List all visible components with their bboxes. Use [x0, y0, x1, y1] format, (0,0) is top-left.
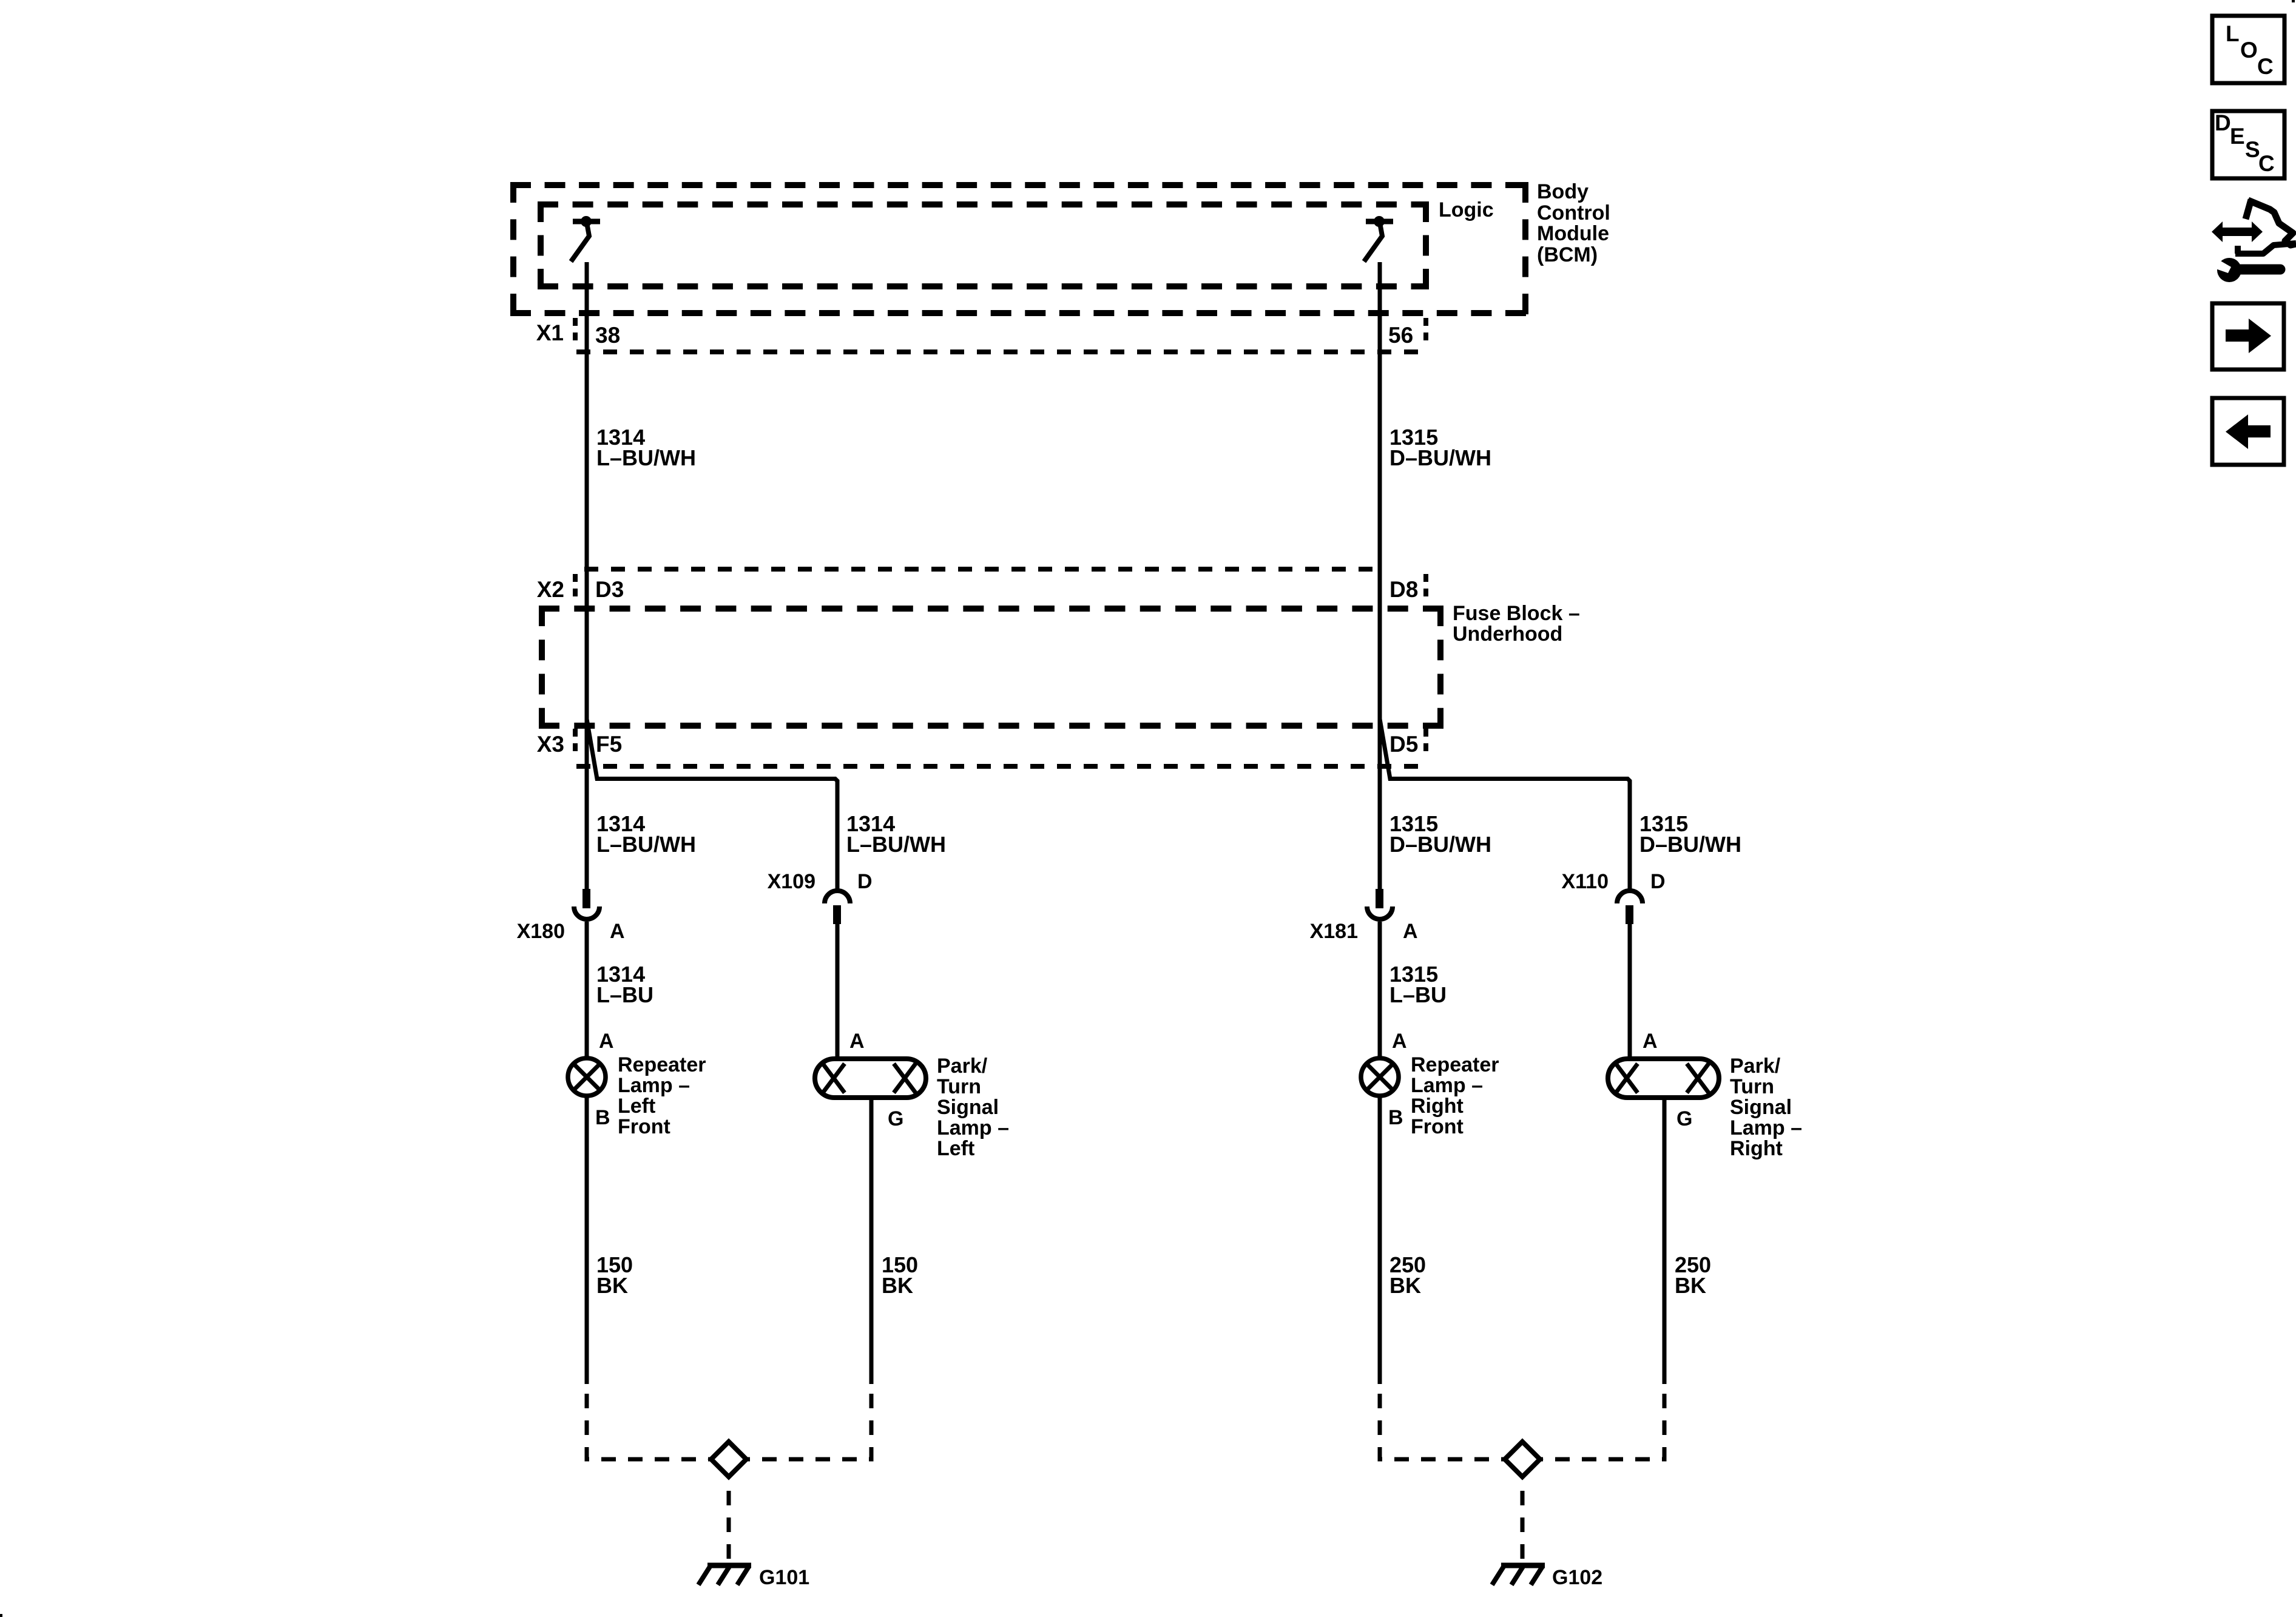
wire label 1314 L-BU/WH (left main, below fuse)	[596, 811, 696, 857]
sidebar icon arrow right box	[2212, 303, 2284, 370]
label Body Control Module (BCM)	[1537, 180, 1610, 266]
svg-text:B: B	[595, 1106, 610, 1129]
svg-text:B: B	[1388, 1106, 1403, 1129]
svg-text:56: 56	[1388, 323, 1413, 348]
svg-text:Logic: Logic	[1439, 198, 1494, 221]
wire branch right: D5 splice to X110	[1380, 719, 1630, 890]
svg-text:Body: Body	[1537, 180, 1589, 203]
svg-text:G: G	[888, 1107, 903, 1130]
svg-text:Lamp –: Lamp –	[1730, 1116, 1802, 1139]
connector X1 row: right dotted tick	[1423, 318, 1428, 347]
svg-text:Lamp –: Lamp –	[1411, 1074, 1483, 1097]
svg-text:Left: Left	[618, 1095, 655, 1118]
wire left: BCM pin 38 down through X1, X2, fuse block to X3/F5 and on to X180	[585, 262, 589, 890]
page mark bottom left	[0, 1614, 2, 1617]
svg-text:BK: BK	[1675, 1273, 1706, 1298]
wire label 1315 D-BU/WH (right branch)	[1639, 811, 1741, 857]
svg-text:Underhood: Underhood	[1453, 623, 1562, 646]
svg-text:Repeater: Repeater	[618, 1053, 706, 1076]
driver switch left (BCM output pin 38)	[571, 216, 600, 262]
dashed wire splice to ground G101	[727, 1479, 731, 1564]
svg-text:A: A	[599, 1030, 614, 1053]
svg-text:BK: BK	[1389, 1273, 1421, 1298]
svg-text:F5: F5	[596, 732, 622, 757]
dashed ground wire left park/turn to splice	[748, 1384, 871, 1459]
wire label 1314 L-BU/WH (left branch)	[846, 811, 946, 857]
connector X3 row: left dotted tick	[573, 729, 578, 758]
ground splice diamond right	[1505, 1442, 1540, 1477]
connector X2 row: top dotted line	[584, 567, 1385, 572]
svg-text:Repeater: Repeater	[1411, 1053, 1499, 1076]
svg-text:L–BU/WH: L–BU/WH	[596, 445, 696, 470]
svg-text:Left: Left	[937, 1137, 974, 1160]
Logic inner dashed box	[538, 201, 1429, 289]
wire label 1315 D-BU/WH right	[1389, 425, 1491, 470]
svg-text:X181: X181	[1310, 920, 1358, 943]
svg-text:A: A	[1643, 1030, 1658, 1053]
wire label 1314 L-BU	[596, 962, 653, 1007]
svg-text:BK: BK	[596, 1273, 628, 1298]
svg-text:Lamp –: Lamp –	[937, 1116, 1009, 1139]
wire park/turn lamp right pin G down	[1663, 1099, 1667, 1384]
svg-text:X180: X180	[517, 920, 565, 943]
svg-text:X3: X3	[537, 732, 564, 757]
svg-text:D: D	[1650, 870, 1666, 893]
wire repeater lamp left pin B down	[585, 1097, 589, 1384]
connector X109 symbol (female arc over male terminal)	[825, 891, 850, 924]
connector X110 symbol (female arc over male terminal)	[1617, 891, 1643, 924]
dashed ground wire right repeater to splice	[1380, 1384, 1504, 1459]
svg-text:G102: G102	[1552, 1566, 1602, 1589]
connector X180 symbol (male terminal into female arc)	[574, 889, 599, 919]
park/turn signal lamp right (stadium with two X)	[1608, 1059, 1719, 1098]
svg-text:L: L	[2226, 21, 2240, 46]
svg-text:X2: X2	[537, 577, 564, 602]
svg-text:D5: D5	[1389, 732, 1418, 757]
svg-text:G101: G101	[759, 1566, 809, 1589]
svg-text:E: E	[2230, 124, 2245, 149]
svg-text:38: 38	[595, 323, 620, 348]
connector X1 row: left dotted tick	[573, 318, 578, 347]
connector X3 row: right dotted tick	[1423, 729, 1428, 758]
svg-text:Signal: Signal	[1730, 1096, 1792, 1119]
svg-text:Signal: Signal	[937, 1096, 999, 1119]
ground splice diamond left	[711, 1442, 746, 1477]
svg-text:D: D	[857, 870, 873, 893]
svg-text:Lamp –: Lamp –	[618, 1074, 690, 1097]
svg-text:Right: Right	[1730, 1137, 1783, 1160]
svg-text:Right: Right	[1411, 1095, 1464, 1118]
svg-text:D–BU/WH: D–BU/WH	[1389, 832, 1491, 857]
svg-text:L–BU/WH: L–BU/WH	[846, 832, 946, 857]
repeater lamp left (circle with X)	[568, 1058, 606, 1096]
wire repeater lamp right pin B down	[1378, 1097, 1382, 1384]
svg-text:S: S	[2245, 137, 2260, 162]
connector X181 symbol (male terminal into female arc)	[1367, 889, 1393, 919]
Body Control Module (BCM) outer dashed box	[510, 182, 1528, 316]
dashed ground wire right park/turn to splice	[1541, 1384, 1664, 1459]
svg-text:X110: X110	[1561, 870, 1609, 893]
svg-text:X109: X109	[768, 870, 815, 893]
sidebar icon LOC box	[2212, 16, 2284, 83]
sidebar icon connector repair (double arrow, connector outline, wrench)	[2210, 200, 2296, 282]
svg-text:C: C	[2258, 151, 2275, 176]
svg-text:L–BU/WH: L–BU/WH	[596, 832, 696, 857]
Fuse Block - Underhood dashed box	[539, 606, 1443, 729]
svg-text:X1: X1	[536, 320, 564, 345]
svg-text:Park/: Park/	[937, 1055, 988, 1078]
svg-text:L–BU: L–BU	[596, 982, 653, 1007]
svg-text:Turn: Turn	[937, 1075, 981, 1098]
svg-text:C: C	[2257, 54, 2274, 79]
svg-text:D3: D3	[595, 577, 624, 602]
label Fuse Block - Underhood	[1453, 602, 1580, 646]
sidebar icon arrow left box	[2212, 398, 2284, 465]
svg-text:Module: Module	[1537, 222, 1609, 245]
label Park/Turn Signal Lamp - Left	[937, 1055, 1009, 1160]
connector X1 row: bottom dotted line	[576, 349, 1430, 354]
svg-text:D–BU/WH: D–BU/WH	[1639, 832, 1741, 857]
ground symbol G101	[698, 1565, 751, 1585]
wire X181 to repeater lamp right	[1378, 922, 1382, 1058]
repeater lamp right (circle with X)	[1361, 1058, 1399, 1096]
wire label 1315 L-BU	[1389, 962, 1447, 1007]
wire label 150 BK (left park/turn)	[882, 1252, 918, 1298]
park/turn signal lamp left (stadium with two X)	[815, 1059, 926, 1098]
wire branch left: F5 splice to X109	[587, 719, 837, 890]
wire X180 to repeater lamp left	[585, 922, 589, 1058]
svg-text:G: G	[1676, 1107, 1692, 1130]
svg-text:A: A	[849, 1030, 865, 1053]
svg-text:Control: Control	[1537, 201, 1610, 224]
page mark top right	[2292, 0, 2295, 2]
wire X110 to park/turn lamp right	[1628, 923, 1632, 1058]
svg-text:Fuse Block –: Fuse Block –	[1453, 602, 1580, 625]
svg-text:D: D	[2215, 110, 2231, 135]
svg-text:O: O	[2240, 38, 2258, 62]
svg-text:BK: BK	[882, 1273, 913, 1298]
connector X2 row: left dotted tick	[573, 574, 578, 603]
svg-text:A: A	[1403, 920, 1418, 943]
svg-text:D8: D8	[1389, 577, 1418, 602]
ground symbol G102	[1492, 1565, 1545, 1585]
svg-text:A: A	[1392, 1030, 1407, 1053]
sidebar icon DESC box	[2212, 110, 2284, 178]
dashed wire splice to ground G102	[1521, 1479, 1525, 1564]
wire right: BCM pin 56 down through X1, X2, fuse block to X3/D5 and on to X181	[1378, 262, 1382, 890]
connector X2 row: right dotted tick	[1423, 574, 1428, 603]
wire label 250 BK (right park/turn)	[1675, 1252, 1711, 1298]
label Repeater Lamp - Right Front	[1411, 1053, 1499, 1138]
label Park/Turn Signal Lamp - Right	[1730, 1055, 1802, 1160]
svg-text:Front: Front	[1411, 1115, 1464, 1138]
connector X3 row: bottom dotted line	[576, 764, 1427, 769]
svg-text:(BCM): (BCM)	[1537, 243, 1598, 266]
wire park/turn lamp left pin G down	[869, 1099, 874, 1384]
wire X109 to park/turn lamp left	[836, 923, 840, 1058]
wire label 150 BK (left repeater)	[596, 1252, 633, 1298]
svg-text:Front: Front	[618, 1115, 670, 1138]
svg-text:Park/: Park/	[1730, 1055, 1781, 1078]
label Repeater Lamp - Left Front	[618, 1053, 706, 1138]
svg-text:Turn: Turn	[1730, 1075, 1774, 1098]
wire label 250 BK (right repeater)	[1389, 1252, 1426, 1298]
wire label 1315 D-BU/WH (right main, below fuse)	[1389, 811, 1491, 857]
driver switch right (BCM output pin 56)	[1364, 216, 1393, 262]
svg-text:D–BU/WH: D–BU/WH	[1389, 445, 1491, 470]
wire label 1314 L-BU/WH left	[596, 425, 696, 470]
dashed ground wire left repeater to splice	[587, 1384, 710, 1459]
svg-text:L–BU: L–BU	[1389, 982, 1447, 1007]
svg-text:A: A	[610, 920, 625, 943]
